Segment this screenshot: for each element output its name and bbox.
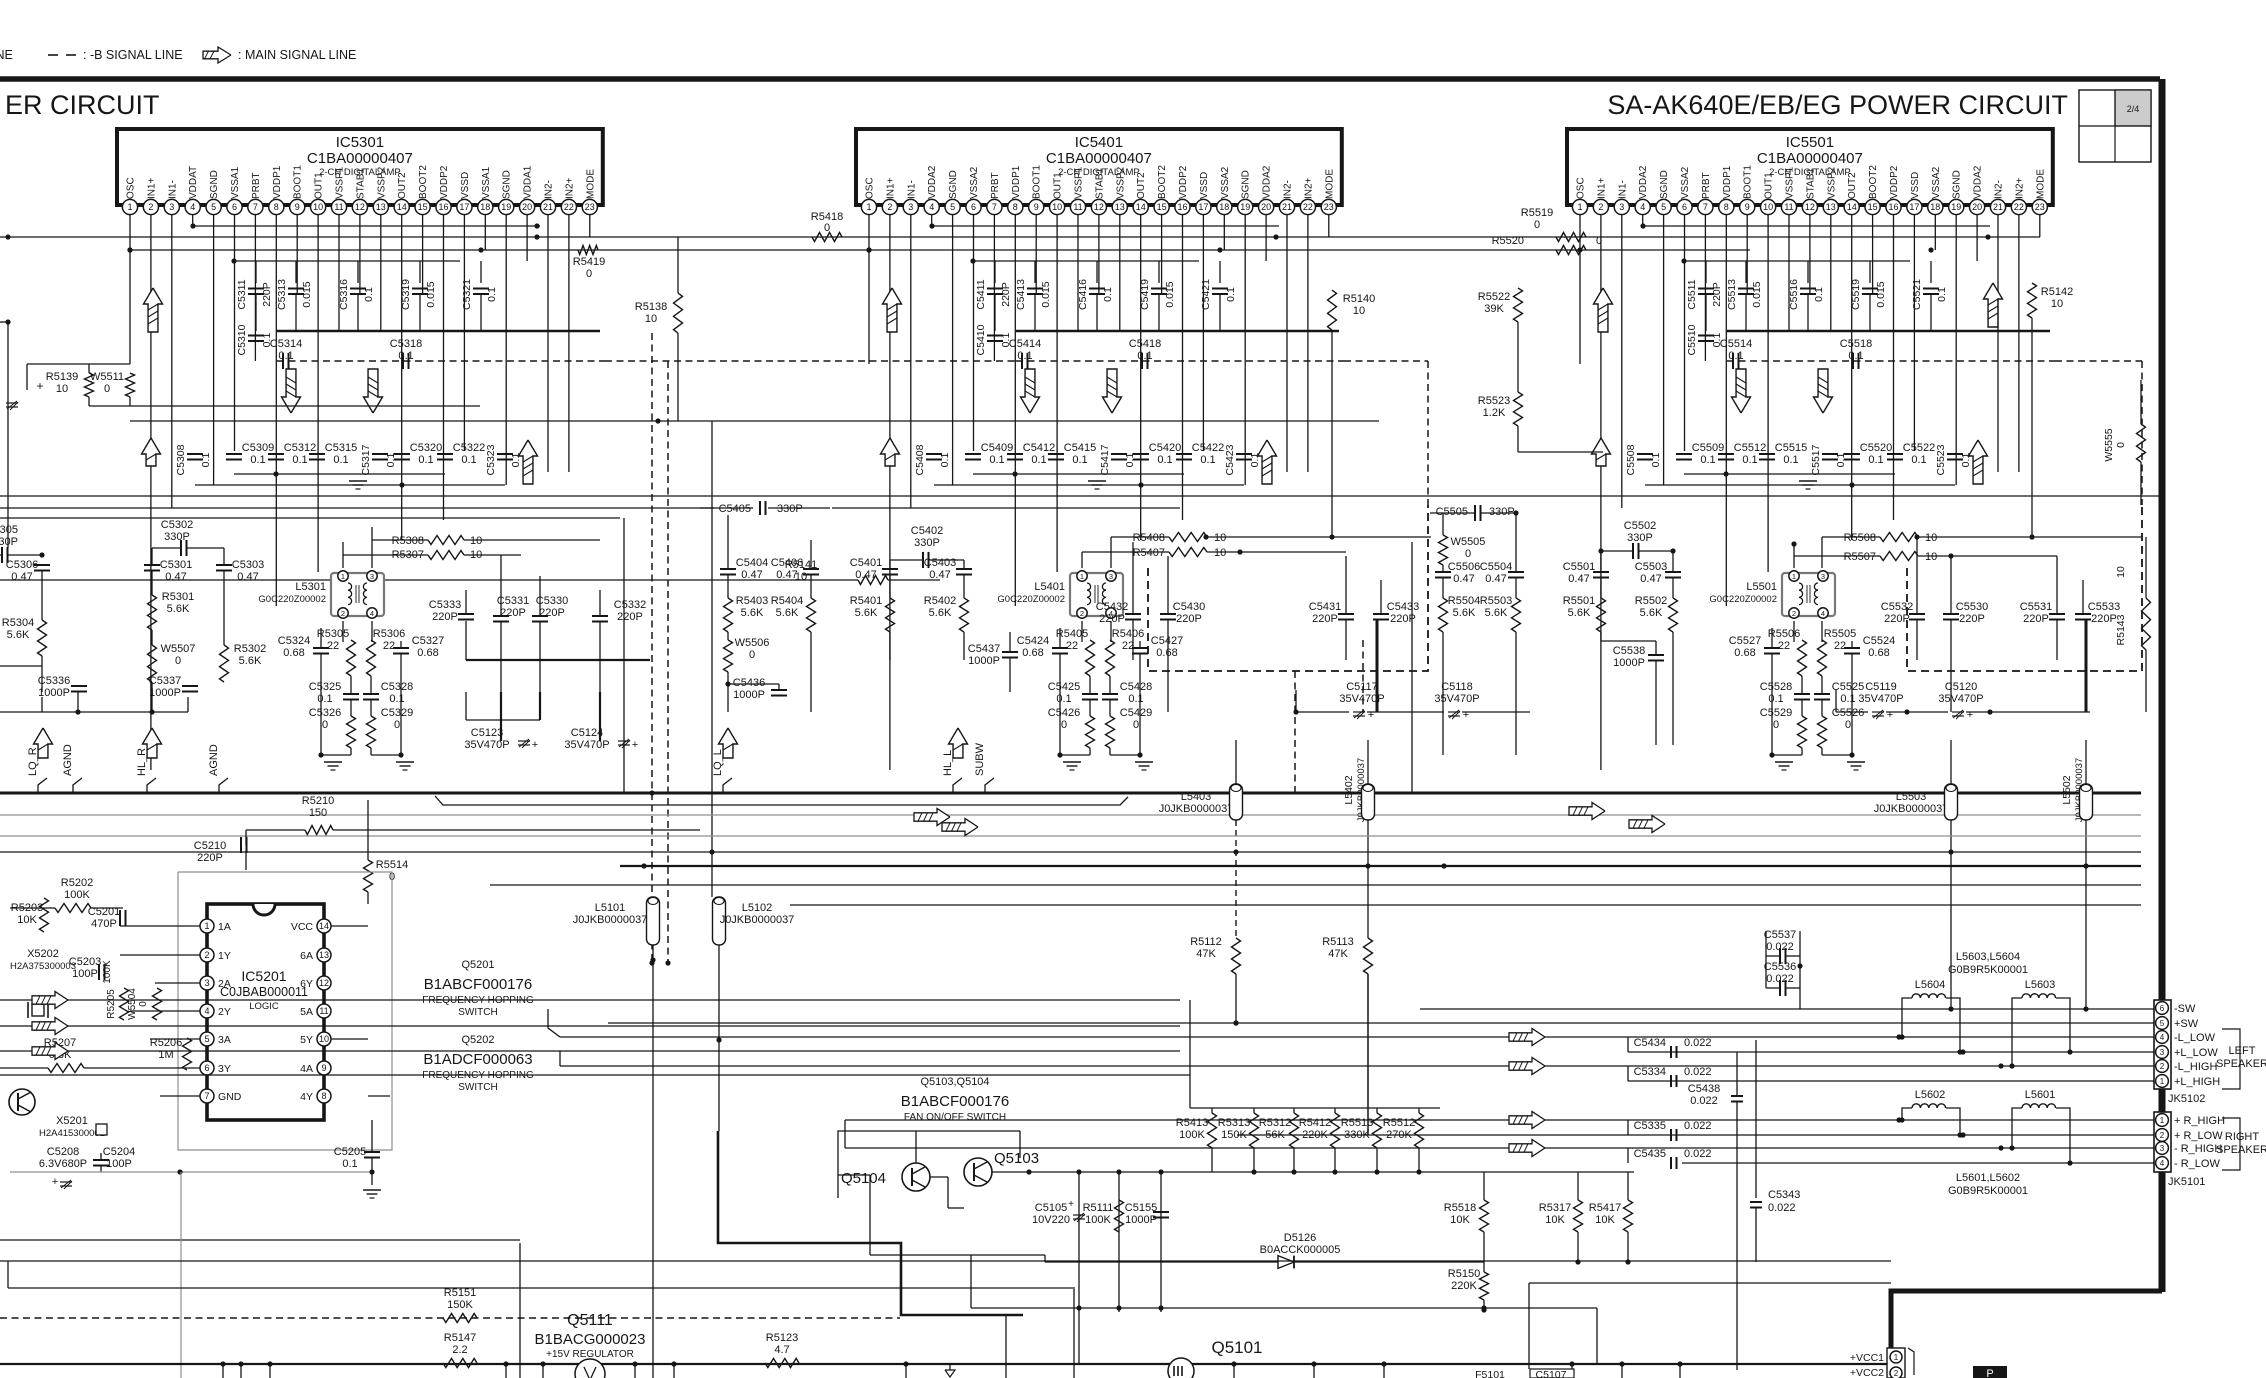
resistor R5514 (364, 860, 373, 892)
svg-text:OUT1: OUT1 (1764, 172, 1775, 199)
svg-text:VDDP1: VDDP1 (1722, 165, 1733, 199)
svg-text:BOOT1: BOOT1 (293, 165, 304, 199)
svg-text:C5523: C5523 (1935, 444, 1947, 475)
flag HL_L (949, 728, 968, 758)
svg-text:17: 17 (459, 202, 469, 212)
svg-text:0.47: 0.47 (237, 571, 258, 583)
svg-text:W5555: W5555 (2103, 428, 2115, 461)
svg-text:6A: 6A (300, 950, 313, 962)
wire 220p row S2 (1132, 542, 1134, 614)
svg-text:C5322: C5322 (453, 442, 485, 454)
JK5101 pin 3 - R_HIGH (2156, 1142, 2169, 1155)
svg-text:3: 3 (908, 202, 913, 212)
svg-text:R5151: R5151 (444, 1287, 476, 1299)
resistor R5202 (55, 904, 91, 913)
svg-text:2: 2 (2160, 1131, 2165, 1140)
svg-text:+VCC1: +VCC1 (1850, 1352, 1884, 1364)
svg-text:C5533: C5533 (2088, 601, 2120, 613)
svg-text:0.1: 0.1 (333, 454, 348, 466)
wire pin drop (952, 215, 954, 485)
svg-text:0.1: 0.1 (1072, 454, 1087, 466)
svg-text:OUT2: OUT2 (1136, 172, 1147, 199)
svg-text:330P: 330P (1489, 506, 1515, 518)
svg-text:4.7: 4.7 (774, 1344, 789, 1356)
wire fan net bottom (870, 1254, 1045, 1256)
svg-text:1: 1 (1792, 572, 1796, 581)
wire segment y261 (973, 260, 1199, 262)
svg-text:R5419: R5419 (573, 256, 605, 268)
svg-text:0.022: 0.022 (1684, 1148, 1712, 1160)
flag AGND (73, 778, 82, 793)
svg-text:0.47: 0.47 (1453, 573, 1474, 585)
svg-text:+: + (1068, 1199, 1074, 1210)
svg-text:F5101: F5101 (1475, 1369, 1505, 1378)
svg-text:0: 0 (1061, 719, 1067, 731)
wire pin drop (993, 215, 995, 361)
svg-text:R5507: R5507 (1844, 551, 1876, 563)
resistor bank R5512 (1415, 1113, 1424, 1148)
main signal arrow (1732, 369, 1751, 413)
svg-text:0: 0 (2115, 442, 2127, 448)
net +L_LOW (1628, 1051, 2154, 1053)
svg-text:C5508: C5508 (1625, 444, 1637, 475)
svg-text:0: 0 (1465, 548, 1471, 560)
svg-text:10: 10 (1353, 305, 1365, 317)
svg-text:G0B9R5K00001: G0B9R5K00001 (1948, 1185, 2028, 1197)
main signal arrow (1592, 438, 1611, 466)
svg-text:C5316: C5316 (338, 279, 350, 310)
svg-text:330P: 330P (1627, 532, 1653, 544)
svg-text:20: 20 (1972, 202, 1982, 212)
svg-text:VSSA2: VSSA2 (1220, 166, 1231, 199)
net y421 (130, 420, 1379, 422)
svg-text:+ R_LOW: + R_LOW (2174, 1130, 2223, 1142)
svg-text:B1ABCF000176: B1ABCF000176 (424, 976, 532, 993)
IC5201 pin 13 6A (317, 948, 331, 962)
svg-text:B1ADCF000063: B1ADCF000063 (423, 1051, 532, 1068)
svg-text:MODE: MODE (1324, 169, 1335, 199)
svg-text:JK5101: JK5101 (2168, 1176, 2205, 1188)
svg-text:8: 8 (321, 1091, 326, 1101)
svg-text:2.2: 2.2 (452, 1344, 467, 1356)
JK5102 pin 5 +SW (2156, 1017, 2169, 1030)
svg-text:R5206: R5206 (150, 1037, 182, 1049)
svg-text:0.1: 0.1 (418, 454, 433, 466)
svg-text:0: 0 (138, 1001, 149, 1007)
wire cap stub (1096, 261, 1098, 283)
net +SW (608, 1022, 2154, 1024)
svg-text:HL_L: HL_L (942, 750, 954, 776)
svg-text:C5409: C5409 (981, 442, 1013, 454)
svg-text:9: 9 (295, 202, 300, 212)
wire pin drop (1286, 215, 1288, 472)
wire pin drop (1642, 215, 1644, 226)
svg-text:IN2-: IN2- (1994, 180, 2005, 199)
-B dashed net bridges (605, 360, 1016, 362)
svg-text:3: 3 (1619, 202, 1624, 212)
ground (1799, 480, 1817, 482)
wire R552x column (1517, 322, 1519, 392)
resistor bank R5412 (1331, 1113, 1340, 1148)
svg-text:IN1-: IN1- (906, 180, 917, 199)
svg-text:C5504: C5504 (1480, 561, 1512, 573)
ground (396, 761, 414, 763)
resistor bank R5312 (1290, 1113, 1299, 1148)
wire cap stub (1705, 261, 1707, 283)
svg-text:C5331: C5331 (497, 595, 529, 607)
dashed box output net S2 (1148, 505, 1428, 671)
svg-text:R5139: R5139 (46, 371, 78, 383)
svg-text:L5102: L5102 (742, 902, 773, 914)
svg-text:10: 10 (313, 202, 323, 212)
svg-text:C5416: C5416 (1077, 279, 1089, 310)
transistor X5201 (9, 1089, 35, 1115)
svg-text:1000P: 1000P (733, 689, 765, 701)
heavy net y331 (277, 330, 600, 332)
svg-text:G0B9R5K00001: G0B9R5K00001 (1948, 964, 2028, 976)
svg-text:23: 23 (2035, 202, 2045, 212)
svg-text:16: 16 (438, 202, 448, 212)
capacitor C5343 (1755, 1040, 1757, 1198)
svg-text:C5210: C5210 (194, 840, 226, 852)
wire cap stub (994, 261, 996, 283)
svg-text:C5512: C5512 (1734, 442, 1766, 454)
svg-text:1: 1 (127, 202, 132, 212)
svg-text:0.47: 0.47 (776, 569, 797, 581)
heavy net y331 (1727, 330, 2050, 332)
wire pin drop (1934, 215, 1936, 250)
svg-text:C5524: C5524 (1863, 635, 1895, 647)
svg-text:C5429: C5429 (1120, 707, 1152, 719)
svg-text:C5320: C5320 (410, 442, 442, 454)
svg-text:P: P (1986, 1368, 1993, 1378)
capacitor C5306 (34, 564, 50, 566)
svg-text:+: + (1463, 709, 1469, 721)
heavy net y331 (1016, 330, 1339, 332)
resistor R5417 (1624, 1200, 1633, 1232)
svg-text:5.6K: 5.6K (855, 607, 878, 619)
main signal arrow (1984, 283, 2003, 327)
IC5201 pin 6 3Y (200, 1061, 214, 1075)
svg-text:7: 7 (253, 202, 258, 212)
svg-text:C5411: C5411 (975, 279, 987, 309)
wire IC5201 right hookups (331, 925, 368, 927)
svg-text:1: 1 (341, 572, 345, 581)
wire left y1000 hookups (1189, 1000, 1191, 1108)
svg-text:12: 12 (1094, 202, 1104, 212)
digital amp IC5501 (1567, 129, 2053, 205)
diode bottom symbol (949, 1364, 951, 1370)
svg-text:C5326: C5326 (309, 707, 341, 719)
resistor R5305 (347, 640, 356, 676)
svg-text:C5328: C5328 (381, 681, 413, 693)
net -L_HIGH (560, 1065, 2154, 1067)
wire pin drop (973, 215, 975, 451)
svg-text:11: 11 (319, 1006, 328, 1016)
svg-text:17: 17 (1909, 202, 1919, 212)
svg-text:5: 5 (204, 1034, 209, 1044)
svg-text:C5520: C5520 (1860, 442, 1892, 454)
svg-text:220P: 220P (1176, 613, 1202, 625)
svg-text:19: 19 (1951, 202, 1961, 212)
wire vertical L5503 col (1950, 740, 1952, 784)
svg-text:Q5111: Q5111 (567, 1312, 613, 1329)
capacitor C5532 (1909, 613, 1925, 615)
svg-text:C5123: C5123 (471, 727, 503, 739)
svg-text:+ R_HIGH: + R_HIGH (2174, 1115, 2225, 1127)
svg-text:C5517: C5517 (1810, 444, 1822, 475)
svg-text:C5408: C5408 (914, 444, 926, 475)
wire pin drop (1244, 215, 1246, 485)
resistor R5150 (1480, 1272, 1489, 1300)
svg-text:4: 4 (190, 202, 195, 212)
svg-text:IN1-: IN1- (167, 180, 178, 199)
JK5101 pin 2 + R_LOW (2156, 1129, 2169, 1142)
svg-text:0.1: 0.1 (1200, 454, 1215, 466)
resistor R5407 (1169, 548, 1207, 557)
svg-text:0.68: 0.68 (1868, 647, 1889, 659)
svg-text:VSSP2: VSSP2 (376, 166, 387, 199)
svg-text:0.47: 0.47 (855, 569, 876, 581)
svg-text:C5521: C5521 (1911, 279, 1923, 310)
transistor Q5103 (964, 1158, 992, 1186)
left speaker brace (2222, 1029, 2240, 1089)
svg-text:5.6K: 5.6K (776, 607, 799, 619)
wire pin drop (589, 215, 591, 237)
main signal arrow (519, 440, 538, 484)
svg-text:R5205: R5205 (106, 989, 117, 1019)
capacitor C5312 (268, 453, 284, 455)
wire pin drop (1621, 215, 1623, 508)
IC5201 pin 11 5A (317, 1004, 331, 1018)
wire S3 left filter (1442, 513, 1444, 535)
wire pin drop (931, 215, 933, 226)
wire R5113 col (1367, 974, 1369, 1135)
svg-text:C5538: C5538 (1613, 645, 1645, 657)
svg-text:C5536: C5536 (1764, 961, 1796, 973)
svg-text:W5505: W5505 (1451, 536, 1486, 548)
wire pin drop (1328, 215, 1330, 237)
svg-text:C1BA00000407: C1BA00000407 (307, 150, 413, 167)
wire L5501 pins (1793, 544, 1795, 568)
svg-text:R5508: R5508 (1844, 532, 1876, 544)
svg-text:14: 14 (1847, 202, 1857, 212)
svg-text:1: 1 (1894, 1353, 1899, 1362)
svg-text:C5323: C5323 (485, 444, 497, 475)
svg-text:220K: 220K (1451, 1280, 1477, 1292)
flag HL_R (143, 728, 162, 758)
svg-text:JK5102: JK5102 (2168, 1093, 2205, 1105)
svg-text:C5511: C5511 (1686, 279, 1698, 309)
svg-text:4: 4 (2160, 1159, 2165, 1168)
svg-text:VDDP2: VDDP2 (1889, 165, 1900, 199)
svg-text:47K: 47K (1196, 948, 1216, 960)
svg-text:R5405: R5405 (1056, 628, 1088, 640)
resistor R5301 (148, 595, 157, 630)
net -L_LOW (560, 1036, 2154, 1038)
wire segment y261 (1684, 260, 1910, 262)
svg-text:0: 0 (394, 719, 400, 731)
wire vertical x1006 (1005, 1315, 1007, 1378)
svg-text:20: 20 (1261, 202, 1271, 212)
digital amp IC5401 (856, 129, 1342, 205)
svg-text:SGND: SGND (1952, 170, 1963, 199)
svg-text:20: 20 (522, 202, 532, 212)
svg-text:0.1: 0.1 (1728, 350, 1743, 362)
main signal arrow -L_HIGH (1509, 1058, 1545, 1075)
svg-text:STAB1: STAB1 (1094, 168, 1105, 199)
capacitor C5433 (1373, 613, 1389, 615)
svg-text:R5502: R5502 (1635, 595, 1667, 607)
svg-text:0.1: 0.1 (317, 693, 332, 705)
svg-text:10: 10 (1052, 202, 1062, 212)
svg-text:R5317: R5317 (1539, 1202, 1571, 1214)
wire bottom stub (240, 1364, 242, 1378)
svg-text:C5522: C5522 (1903, 442, 1935, 454)
net y406 (89, 405, 480, 407)
net y1075 (0, 1074, 1190, 1076)
svg-text:R5522: R5522 (1478, 291, 1510, 303)
svg-text:C5431: C5431 (1309, 601, 1341, 613)
svg-text:PRBT: PRBT (1701, 172, 1712, 199)
capacitor C5522 (1887, 453, 1903, 455)
svg-text:R5514: R5514 (376, 859, 408, 871)
wire cap stub (1158, 261, 1160, 283)
capacitor C5406 (803, 568, 819, 570)
wire bottom stub (1313, 1364, 1315, 1378)
wire vertical x1597 (1596, 1308, 1598, 1364)
resistor R5140 (1328, 290, 1337, 330)
svg-text:C5419: C5419 (1139, 279, 1151, 310)
wire pin drop (401, 215, 403, 540)
svg-text:STAB1: STAB1 (1805, 168, 1816, 199)
svg-text:-L_LOW: -L_LOW (2174, 1032, 2216, 1044)
svg-text:BOOT2: BOOT2 (1157, 165, 1168, 199)
right speaker brace (2222, 1118, 2240, 1170)
wire pin drop (171, 215, 173, 508)
svg-text:19: 19 (501, 202, 511, 212)
wire vertical L5403 col (1235, 740, 1237, 784)
capacitor C5309 (226, 453, 242, 455)
svg-text:35V470P: 35V470P (1339, 693, 1384, 705)
wire cluster frame (320, 628, 322, 648)
dashed box output net S3 (1907, 505, 2142, 671)
svg-text:BOOT1: BOOT1 (1032, 165, 1043, 199)
wire pin drop (1767, 215, 1769, 572)
JK5102 pin 3 +L_LOW (2156, 1046, 2169, 1059)
wire pin drop (254, 215, 256, 361)
svg-text:R5520: R5520 (1492, 235, 1524, 247)
svg-text:0.1: 0.1 (278, 350, 293, 362)
svg-text:3: 3 (370, 572, 374, 581)
capacitor C5528 (1794, 693, 1810, 695)
svg-text:VDDP2: VDDP2 (1178, 165, 1189, 199)
svg-text:330P: 330P (777, 503, 803, 515)
svg-text:W5507: W5507 (161, 643, 196, 655)
svg-text:C5333: C5333 (429, 599, 461, 611)
capacitor C5334 (1627, 1066, 1629, 1081)
wire bottom stub (1621, 1364, 1623, 1378)
svg-text:14: 14 (1136, 202, 1146, 212)
svg-text:18: 18 (480, 202, 490, 212)
resistor R5401 (886, 598, 895, 632)
svg-text:C5417: C5417 (1099, 444, 1111, 475)
wire pin drop (234, 215, 236, 451)
resistor R5207 (48, 1064, 84, 1073)
capacitor C5330 (532, 615, 548, 617)
svg-text:RIGHT: RIGHT (2225, 1131, 2260, 1143)
svg-text:C5531: C5531 (2020, 601, 2052, 613)
svg-text:3: 3 (1821, 572, 1825, 581)
svg-text:0.1: 0.1 (250, 454, 265, 466)
svg-text:0.1: 0.1 (1768, 693, 1783, 705)
svg-text:0.1: 0.1 (398, 350, 413, 362)
svg-text:VSSD: VSSD (460, 172, 471, 199)
capacitor C5434 (1627, 1037, 1629, 1052)
main signal arrow right 2 (942, 819, 978, 836)
svg-text:3Y: 3Y (218, 1063, 231, 1075)
svg-text:21: 21 (1282, 202, 1292, 212)
wire cap stub (419, 261, 421, 283)
svg-text:13: 13 (1826, 202, 1836, 212)
resistor R5306 (367, 640, 376, 676)
svg-text:VDDA1: VDDA1 (523, 165, 534, 199)
svg-text:35V470P: 35V470P (1938, 693, 1983, 705)
svg-text:0: 0 (1773, 719, 1779, 731)
wire cap stub (357, 261, 359, 283)
svg-text:10K: 10K (1450, 1214, 1470, 1226)
svg-text:11: 11 (334, 202, 343, 212)
svg-text:R5406: R5406 (1112, 628, 1144, 640)
net y1240 lower-left (0, 1239, 520, 1241)
svg-text:SWITCH: SWITCH (458, 1007, 497, 1018)
svg-text:0.1: 0.1 (389, 693, 404, 705)
svg-text:G0C220Z00002: G0C220Z00002 (258, 594, 326, 605)
wire segment y474 (1684, 473, 1895, 475)
svg-text:C5120: C5120 (1945, 681, 1977, 693)
svg-text:+: + (1887, 709, 1893, 721)
svg-text:Q5202: Q5202 (461, 1034, 494, 1046)
svg-text:C5410: C5410 (975, 324, 987, 355)
svg-text:C5124: C5124 (571, 727, 603, 739)
wire pin drop (1035, 215, 1037, 293)
left edge arrows (0, 999, 1180, 1001)
svg-text:G0C220Z00002: G0C220Z00002 (1709, 594, 1777, 605)
capacitor C5512 (1718, 453, 1734, 455)
svg-text:R5305: R5305 (317, 628, 349, 640)
resistor R5317 (1574, 1200, 1583, 1232)
svg-text:2: 2 (341, 609, 345, 618)
IC5201 pin 2 1Y (200, 948, 214, 962)
svg-text:Q5103,Q5104: Q5103,Q5104 (920, 1076, 989, 1088)
svg-text:2A: 2A (218, 978, 231, 990)
resistor R5408 (1169, 533, 1207, 542)
svg-text:12: 12 (355, 202, 365, 212)
resistor R5518 (1480, 1200, 1489, 1232)
wire fan net y1308 (971, 1307, 1597, 1309)
svg-text:19: 19 (1240, 202, 1250, 212)
svg-text:1: 1 (2160, 1116, 2165, 1125)
svg-text:R5407: R5407 (1133, 547, 1165, 559)
svg-text:J0JKB0000037: J0JKB0000037 (1159, 803, 1234, 815)
svg-text:C5404: C5404 (736, 557, 768, 569)
svg-text:GND: GND (218, 1091, 242, 1103)
resistor R5112 (1232, 938, 1241, 974)
svg-text:VCC: VCC (291, 921, 314, 933)
svg-text:R5512: R5512 (1383, 1117, 1415, 1129)
wire bottom stub (542, 1364, 544, 1378)
svg-text:L5503: L5503 (1896, 791, 1927, 803)
